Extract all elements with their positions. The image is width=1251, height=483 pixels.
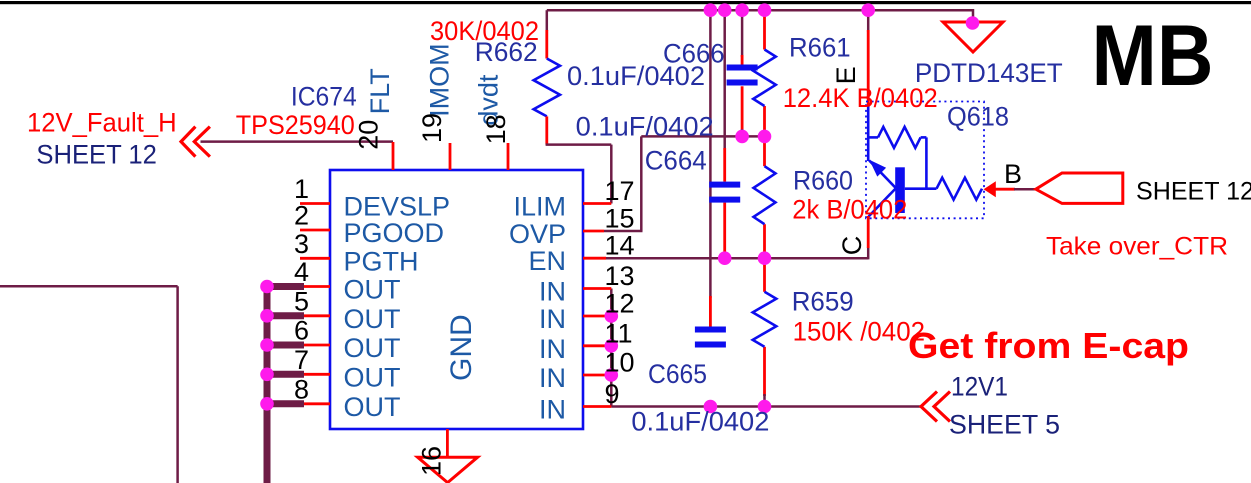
svg-text:6: 6	[294, 316, 309, 346]
svg-text:Get from E-cap: Get from E-cap	[908, 325, 1189, 366]
wire collector lead red	[867, 216, 870, 248]
pin 12 stub	[583, 315, 611, 318]
pin 5 stub	[300, 314, 330, 317]
svg-text:PGOOD: PGOOD	[344, 218, 445, 248]
junction rail C665	[704, 400, 718, 414]
IC U674 TPS25940 body	[330, 170, 583, 429]
svg-text:7: 7	[294, 345, 309, 375]
svg-text:R661: R661	[789, 32, 851, 62]
svg-text:9: 9	[605, 379, 620, 409]
svg-text:IN: IN	[539, 304, 566, 334]
junction bus R661	[758, 3, 772, 17]
pin 15 stub	[583, 230, 604, 233]
transistor emitter arrow	[869, 160, 886, 177]
wire OUT bus segment pin 6	[264, 342, 305, 349]
resistor R662	[534, 59, 560, 117]
svg-text:IC674: IC674	[291, 81, 357, 111]
svg-text:C666: C666	[663, 39, 725, 69]
wire EN net horizontal	[605, 257, 868, 260]
wire C666 bottom tail	[741, 129, 744, 136]
wire emitter vertical blue	[867, 106, 870, 161]
junction bus C664	[718, 3, 732, 17]
capacitor C664	[709, 182, 740, 188]
junction OVP C666	[735, 130, 749, 144]
arrow into base	[984, 181, 996, 197]
wire R659 bottom tail	[763, 394, 766, 407]
transistor base bar	[895, 167, 905, 213]
wire R662 bottom lead	[545, 116, 548, 144]
pin 18 stub	[507, 143, 510, 170]
wire 12V1 rail	[611, 405, 921, 408]
svg-text:18: 18	[481, 114, 511, 144]
svg-text:IMOM: IMOM	[424, 43, 454, 117]
wire OUT bus vertical	[264, 287, 271, 483]
wire down to pin 17	[610, 145, 613, 204]
svg-text:B: B	[1004, 159, 1022, 189]
svg-text:OUT: OUT	[344, 333, 401, 363]
wire to sheet connector B	[1014, 188, 1037, 191]
wire R661 bottom lead	[763, 106, 766, 136]
capacitor C666	[727, 65, 758, 71]
svg-text:MB: MB	[1092, 8, 1214, 104]
wire IN vertical pins 13-9	[610, 289, 613, 407]
wire R660 bottom lead	[763, 224, 766, 258]
wire OUT bus segment pin 4	[264, 283, 305, 290]
wire C664 bottom lead	[723, 203, 726, 259]
pin 6 stub	[300, 344, 330, 347]
svg-text:19: 19	[417, 113, 447, 143]
top border line	[0, 1, 1251, 4]
svg-text:Take over_CTR: Take over_CTR	[1046, 233, 1228, 261]
pin 16 stub	[446, 429, 449, 457]
junction IN pin 12	[605, 309, 619, 323]
wire collector to EN	[867, 247, 870, 259]
svg-text:C: C	[837, 236, 867, 256]
resistor base internal	[937, 178, 983, 200]
svg-text:OUT: OUT	[344, 304, 401, 334]
svg-text:C664: C664	[645, 146, 707, 176]
svg-text:GND: GND	[445, 314, 478, 381]
svg-text:OUT: OUT	[344, 362, 401, 392]
transistor Q618 dotted box	[866, 102, 984, 219]
junction OUT bus pin 5	[260, 309, 274, 323]
svg-text:12: 12	[605, 289, 635, 319]
svg-text:1: 1	[294, 174, 309, 204]
junction rail R659	[758, 400, 772, 414]
svg-text:PGTH: PGTH	[344, 246, 419, 276]
junction IN pin 11	[605, 339, 619, 353]
wire C666 bottom lead	[741, 86, 744, 131]
pin 7 stub	[300, 373, 330, 376]
wire top bus horizontal	[547, 9, 973, 12]
wire base line	[905, 187, 937, 190]
pin 10 stub	[583, 374, 611, 377]
wire top bus corner down	[972, 9, 975, 23]
svg-text:IN: IN	[539, 334, 566, 364]
junction power symbol	[966, 16, 980, 30]
svg-text:Q618: Q618	[947, 101, 1009, 131]
svg-text:12V_Fault_H: 12V_Fault_H	[27, 108, 177, 138]
svg-text:TPS25940: TPS25940	[236, 110, 355, 140]
wire left block right	[176, 286, 179, 483]
pin 2 stub	[300, 229, 330, 232]
svg-text:C665: C665	[648, 359, 707, 389]
svg-text:5: 5	[294, 286, 309, 316]
wire left block top	[0, 285, 178, 288]
power symbol triangle top right	[943, 22, 1003, 52]
wire C664 column upper	[723, 10, 726, 150]
junction OUT bus pin 8	[260, 397, 274, 411]
pin 20 stub	[392, 142, 395, 170]
wire emitter column red	[867, 30, 870, 107]
resistor internal top	[878, 127, 921, 148]
junction IN pin 10	[605, 368, 619, 382]
pin 17 stub	[583, 202, 611, 205]
wire R662 top lead	[545, 30, 548, 59]
svg-text:OVP: OVP	[509, 219, 566, 249]
wire C664 top lead	[723, 148, 726, 182]
wire OUT bus segment pin 5	[264, 312, 305, 319]
ground symbol pin 16	[418, 457, 478, 482]
wire R662 to ILIM horizontal	[546, 143, 612, 146]
svg-text:R662: R662	[475, 37, 538, 67]
wire OVP horizontal to pin 15	[604, 230, 643, 233]
wire C665 top lead	[709, 296, 712, 327]
pin 19 stub	[449, 143, 452, 170]
wire internal resistor left lead	[868, 136, 878, 139]
wire C665 column upper	[709, 10, 712, 298]
pin 14 stub	[583, 257, 606, 260]
svg-text:17: 17	[605, 176, 635, 206]
svg-text:IN: IN	[539, 277, 566, 307]
wire base arrow red	[995, 188, 1015, 191]
svg-text:OUT: OUT	[344, 392, 401, 422]
wire emitter column upper	[867, 10, 870, 32]
wire R659 top lead	[763, 258, 766, 292]
wire C666 top lead	[741, 55, 744, 65]
svg-text:R660: R660	[793, 166, 853, 196]
wire R661 top lead	[763, 10, 766, 49]
resistor R660	[754, 166, 776, 224]
svg-text:SHEET 12: SHEET 12	[1136, 178, 1251, 206]
svg-text:IN: IN	[539, 395, 566, 425]
wire OUT bus segment pin 7	[264, 371, 305, 378]
wire internal resistor right lead	[921, 136, 927, 139]
capacitor C665	[695, 327, 726, 333]
svg-text:15: 15	[605, 204, 635, 234]
wire OVP vertical	[640, 136, 643, 231]
svg-text:8: 8	[294, 374, 309, 404]
svg-text:3: 3	[294, 229, 309, 259]
pin 11 stub	[583, 344, 611, 347]
svg-text:0.1uF/0402: 0.1uF/0402	[576, 111, 714, 141]
junction bus C666	[735, 3, 749, 17]
junction bus emitter	[861, 3, 875, 17]
wire emitter diagonal	[869, 161, 895, 188]
svg-text:20: 20	[353, 120, 383, 150]
junction OUT bus pin 7	[260, 368, 274, 382]
pin 1 stub	[300, 202, 330, 205]
svg-text:16: 16	[416, 446, 446, 476]
wire internal resistor down lead	[925, 137, 928, 188]
pin 3 stub	[300, 257, 330, 260]
resistor R659	[753, 292, 777, 347]
svg-text:4: 4	[294, 257, 309, 287]
svg-text:12V1: 12V1	[951, 372, 1008, 402]
sheet connector chevrons 12V1	[921, 392, 950, 422]
pin 13 stub	[583, 287, 611, 290]
wire C666 column upper	[741, 10, 744, 57]
svg-text:IN: IN	[539, 363, 566, 393]
wire R660 top lead	[763, 136, 766, 166]
wire R662 top from bus	[546, 10, 549, 31]
svg-text:14: 14	[605, 231, 635, 261]
junction OUT bus pin 4	[260, 280, 274, 294]
svg-text:PDTD143ET: PDTD143ET	[915, 58, 1063, 88]
svg-text:150K /0402: 150K /0402	[793, 316, 925, 346]
svg-text:DEVSLP: DEVSLP	[344, 192, 451, 222]
svg-text:0.1uF/0402: 0.1uF/0402	[631, 407, 769, 437]
svg-text:11: 11	[605, 318, 633, 348]
svg-text:OUT: OUT	[344, 275, 401, 305]
junction EN C664	[718, 251, 732, 265]
sheet connector pentagon SHEET 12	[1036, 173, 1123, 203]
pin 9 stub	[583, 405, 611, 408]
resistor R661	[753, 50, 776, 107]
wire FLT to pin 20	[201, 140, 394, 143]
wire R659 bottom lead	[763, 347, 766, 396]
pin 8 stub	[300, 402, 330, 405]
svg-text:ILIM: ILIM	[513, 192, 566, 222]
junction OUT bus pin 6	[260, 338, 274, 352]
svg-text:2: 2	[294, 201, 309, 231]
junction EN R660 R659	[758, 251, 772, 265]
svg-text:FLT: FLT	[365, 68, 395, 114]
svg-text:13: 13	[605, 261, 635, 291]
svg-text:SHEET 5: SHEET 5	[949, 410, 1060, 440]
svg-text:R659: R659	[792, 287, 854, 317]
svg-text:2k B/0402: 2k B/0402	[792, 195, 907, 225]
wire OVP net horizontal	[641, 135, 769, 138]
svg-text:10: 10	[605, 348, 635, 378]
junction OVP R661 R660	[758, 130, 772, 144]
svg-text:E: E	[831, 66, 861, 84]
wire collector diagonal	[869, 189, 896, 217]
wire OUT bus segment pin 8	[264, 400, 305, 407]
junction bus C665	[704, 3, 718, 17]
pin 4 stub	[300, 285, 330, 288]
sheet connector chevrons 12V_Fault_H	[181, 127, 210, 157]
svg-text:EN: EN	[528, 246, 566, 276]
svg-text:SHEET 12: SHEET 12	[36, 139, 156, 169]
